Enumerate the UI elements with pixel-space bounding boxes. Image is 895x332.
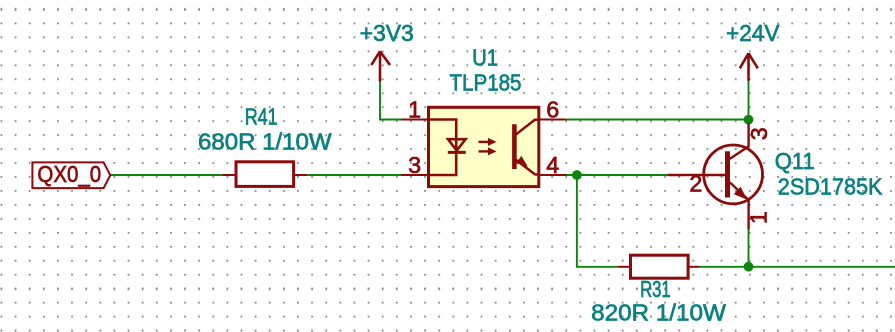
pin 3 [401,174,428,176]
power symbol +3V3 [371,51,390,81]
pin 4 [539,174,566,176]
Q11 emitter arrow [734,187,748,200]
wire node down to R31 left [577,175,618,267]
wire U1 pin 6 to +24V node [566,119,749,121]
junction node at emitter / R31 right [744,262,754,272]
net label QX0_0 flag [32,161,110,188]
transistor Q11 [667,123,762,230]
LED triangle [448,139,466,150]
resistor R31 [618,255,700,278]
wire R41 to U1 pin 3 [307,174,402,176]
optocoupler U1 TLP185 [401,107,566,186]
svg-text:1: 1 [408,96,421,122]
phototransistor emitter arrow [516,156,528,167]
svg-text:3: 3 [408,152,421,178]
Q11 base bar [725,151,730,197]
Q11 collector pin 3 [730,123,749,159]
svg-text:820R 1/10W: 820R 1/10W [591,300,726,326]
power symbol +24V [740,53,758,81]
svg-text:4: 4 [546,152,559,178]
pin 6 [539,119,566,121]
Q11 base pin 2 [667,174,725,176]
svg-text:U1: U1 [472,45,498,71]
wire +24V symbol down to node [748,81,750,120]
svg-text:R31: R31 [640,276,671,302]
wire R31 right to emitter node and off right edge [700,266,895,268]
LED cathode bar [448,151,466,154]
svg-text:R41: R41 [245,104,278,130]
svg-text:QX0_0: QX0_0 [37,161,101,187]
svg-text:680R 1/10W: 680R 1/10W [198,128,332,154]
U1 body [429,107,539,186]
phototransistor collector [515,120,539,136]
svg-text:6: 6 [546,96,559,122]
wire U1 pin 4 to Q11 base [566,174,667,176]
wire net QX0_0 from label to R41 [110,174,222,176]
svg-text:3: 3 [746,127,772,140]
resistor R41 [222,162,307,187]
pin 1 [401,119,428,121]
wire Q11 emitter down to node [748,229,750,266]
svg-text:2: 2 [689,171,702,197]
junction node at U1 pin 4 / base / R31 [572,170,582,180]
LED wiring inside U1 [429,120,457,176]
Q11 body circle [704,145,763,204]
svg-text:+24V: +24V [726,20,780,46]
phototransistor emitter [515,159,539,175]
phototransistor bar [512,124,517,169]
svg-text:TLP185: TLP185 [450,70,522,96]
wire +3V3 to U1 pin 1 [380,81,402,120]
svg-text:Q11: Q11 [775,148,815,174]
junction node at +24V / pin 6 / collector [744,115,754,125]
light arrow 1 [479,138,497,146]
svg-text:2SD1785K: 2SD1785K [778,174,883,200]
svg-text:+3V3: +3V3 [360,20,414,46]
svg-text:1: 1 [746,211,772,224]
Q11 emitter pin 1 [730,182,749,229]
light arrow 2 [479,147,497,155]
